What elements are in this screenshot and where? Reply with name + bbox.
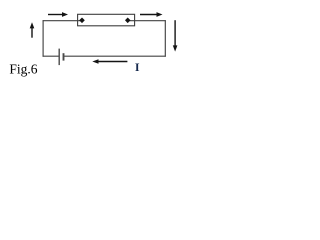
- current arrow left side (points up): [30, 22, 35, 37]
- current arrow bottom (points left): [92, 59, 127, 64]
- wire: top-right segment from box to right corner: [129, 20, 166, 22]
- current arrow right side (points down): [173, 20, 178, 51]
- wire: right side of loop: [164, 20, 166, 57]
- wire: bottom-right segment from battery to right corner: [63, 55, 165, 57]
- svg-text:Fig.6: Fig.6: [9, 62, 37, 77]
- battery cell long plate (positive): [58, 49, 60, 66]
- current arrow top-left (points right): [48, 12, 68, 17]
- terminal node right (diamond): [125, 18, 131, 24]
- wire: left side of loop: [42, 20, 44, 57]
- wire: bottom-left segment to battery: [43, 55, 60, 57]
- svg-text:I: I: [135, 60, 140, 74]
- component box (rectangular conductor): [78, 14, 135, 25]
- current arrow top-right (points right): [140, 12, 163, 17]
- battery cell short plate (negative): [63, 53, 65, 60]
- wire: top-left segment from left corner into box: [43, 20, 81, 22]
- terminal node left (diamond): [79, 18, 85, 24]
